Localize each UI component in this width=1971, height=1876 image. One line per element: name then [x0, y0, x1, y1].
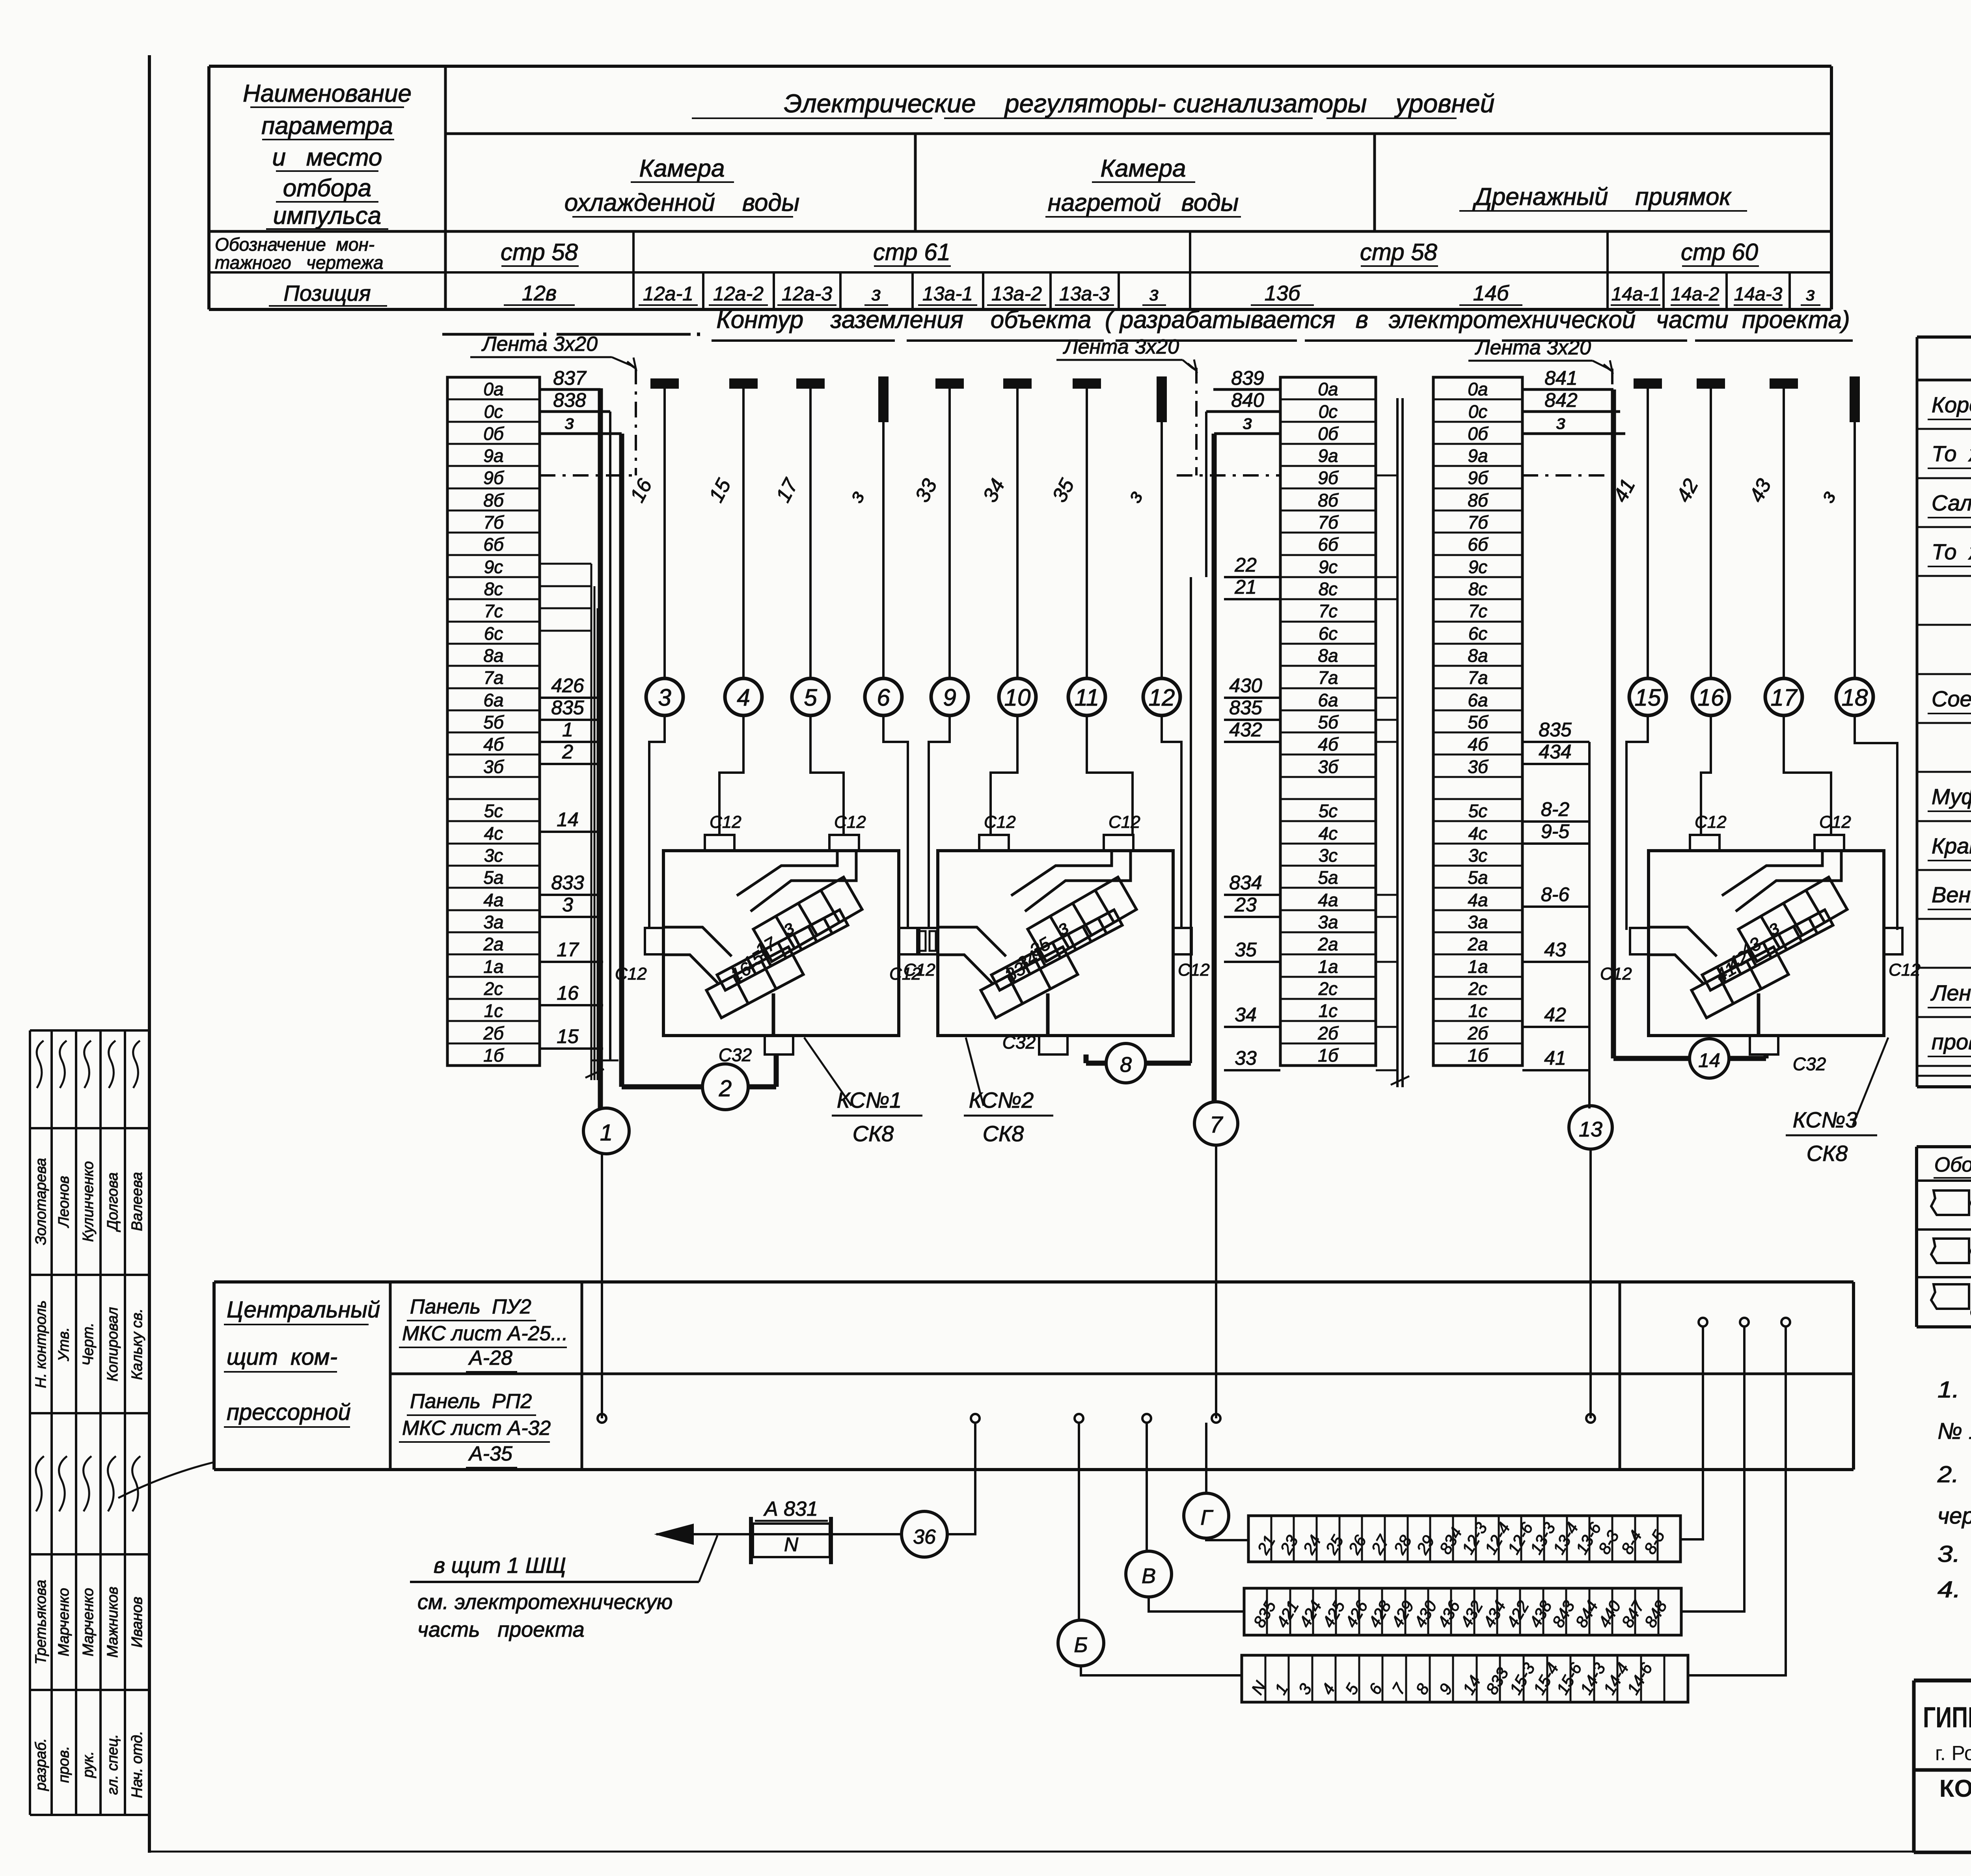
svg-text:стр 58: стр 58: [1360, 239, 1438, 265]
wire run to box stub: [929, 715, 950, 928]
top stub C12 b: [1104, 835, 1133, 851]
svg-text:1: 1: [600, 1120, 613, 1146]
svg-text:3а: 3а: [483, 912, 503, 932]
svg-text:4. Схема выполнена на: 4. Схема выполнена на листах А-39, А-40: [1937, 1577, 1971, 1602]
svg-text:7с: 7с: [1468, 601, 1488, 621]
svg-text:С12: С12: [1108, 812, 1140, 832]
svg-text:34: 34: [1235, 1004, 1257, 1026]
svg-text:5с: 5с: [484, 801, 503, 821]
svg-text:8-2: 8-2: [1541, 798, 1569, 820]
svg-text:7б: 7б: [1468, 512, 1489, 533]
svg-text:1б: 1б: [483, 1045, 505, 1066]
svg-text:12а-2: 12а-2: [713, 283, 764, 305]
impulse line 43 with device pos.17: [1770, 379, 1797, 388]
svg-text:3: 3: [658, 684, 671, 711]
flag symbol 1: [1931, 1190, 1969, 1215]
svg-text:16: 16: [1698, 684, 1724, 711]
svg-text:1. Позиции приборов: 1. Позиции приборов указаны по специфика…: [1937, 1377, 1971, 1403]
junction box KS No.3: [1649, 851, 1884, 1036]
position circle 6: [865, 678, 902, 715]
svg-text:А 831: А 831: [763, 1498, 818, 1520]
pos circle 13: [1569, 1106, 1612, 1149]
connection dots on RP2 row: [598, 1414, 606, 1423]
strip right-end risers to PU2 dots: [1680, 1326, 1703, 1539]
flag symbol 3: [1931, 1284, 1969, 1309]
svg-text:0с: 0с: [484, 401, 503, 422]
wire run to box stub: [1784, 715, 1831, 835]
terminal block mid-left (13b): [1280, 377, 1376, 1066]
svg-text:434: 434: [1539, 741, 1571, 763]
svg-text:9б: 9б: [1468, 468, 1489, 488]
svg-text:6а: 6а: [1318, 690, 1338, 710]
svg-text:4с: 4с: [1468, 823, 1488, 844]
wire run to box stub: [1701, 715, 1711, 835]
svg-text:5а: 5а: [483, 867, 503, 888]
svg-text:Иванов: Иванов: [129, 1597, 145, 1647]
svg-text:пров.: пров.: [56, 1746, 72, 1783]
svg-text:0а: 0а: [1318, 379, 1338, 399]
svg-text:7а: 7а: [1318, 667, 1338, 688]
svg-text:11: 11: [1075, 684, 1099, 711]
svg-text:0а: 0а: [1468, 379, 1488, 399]
svg-text:838: 838: [553, 389, 586, 411]
svg-text:2а: 2а: [1317, 934, 1338, 954]
svg-text:12в: 12в: [522, 281, 557, 305]
svg-text:5б: 5б: [1468, 712, 1489, 732]
svg-text:14а-1: 14а-1: [1611, 284, 1660, 305]
svg-text:7б: 7б: [1318, 512, 1339, 533]
svg-text:импульса: импульса: [273, 202, 381, 229]
terminal strip G: [1248, 1516, 1680, 1562]
svg-text:6а: 6а: [1468, 690, 1488, 710]
svg-text:0а: 0а: [483, 379, 503, 399]
svg-text:в щит 1 ШЩ: в щит 1 ШЩ: [434, 1553, 566, 1578]
svg-text:8с: 8с: [1319, 579, 1338, 599]
mid-right block wire labels: [1522, 388, 1613, 391]
svg-text:12а-1: 12а-1: [643, 283, 693, 305]
svg-text:з: з: [564, 411, 574, 433]
mid-left block wire labels: [1213, 388, 1280, 391]
specification table: [1917, 335, 1971, 339]
svg-text:22: 22: [1234, 554, 1257, 576]
svg-text:КС№3: КС№3: [1793, 1107, 1858, 1132]
svg-text:35: 35: [1235, 939, 1257, 961]
junction box KS No.2: [938, 851, 1173, 1036]
svg-text:4б: 4б: [483, 734, 505, 754]
svg-text:параметра: параметра: [261, 112, 393, 140]
svg-text:прессорной: прессорной: [227, 1399, 351, 1425]
wire run to box stub: [649, 715, 665, 928]
svg-text:7с: 7с: [1319, 601, 1338, 621]
svg-text:2б: 2б: [483, 1023, 505, 1043]
svg-text:1а: 1а: [483, 956, 503, 977]
svg-text:1с: 1с: [1319, 1000, 1338, 1021]
svg-text:7а: 7а: [483, 667, 503, 688]
svg-text:430: 430: [1229, 674, 1262, 697]
svg-text:Б: Б: [1074, 1633, 1088, 1657]
svg-text:Мажников: Мажников: [104, 1587, 121, 1658]
handwriting underlines top table: [250, 106, 404, 108]
svg-text:4с: 4с: [484, 823, 503, 844]
svg-text:9: 9: [943, 684, 956, 711]
svg-text:9а: 9а: [483, 445, 503, 466]
svg-text:839: 839: [1231, 367, 1264, 389]
wire 838: [609, 412, 611, 1060]
position circle 18: [1836, 678, 1873, 715]
svg-text:4: 4: [737, 684, 750, 711]
svg-text:3б: 3б: [1468, 756, 1489, 777]
svg-text:13а-2: 13а-2: [991, 283, 1042, 305]
svg-text:841: 841: [1544, 367, 1577, 389]
impulse line 15 with device pos.4: [730, 379, 757, 388]
flag symbol 2: [1931, 1239, 1969, 1263]
svg-text:Копировал: Копировал: [104, 1307, 121, 1382]
svg-text:14: 14: [1698, 1049, 1720, 1071]
junction box KS No.1: [663, 851, 899, 1036]
svg-text:12: 12: [1149, 684, 1175, 711]
svg-text:12а-3: 12а-3: [782, 283, 832, 305]
svg-text:6: 6: [877, 684, 890, 711]
svg-text:МКС лист А-25...: МКС лист А-25...: [402, 1322, 568, 1345]
svg-text:3с: 3с: [1468, 845, 1488, 866]
title block: [1914, 1679, 1971, 1682]
svg-text:3а: 3а: [1468, 912, 1488, 932]
position circle 4: [725, 678, 762, 715]
right stub C12: [899, 928, 917, 954]
svg-text:17: 17: [557, 939, 579, 961]
svg-text:18: 18: [1842, 684, 1868, 711]
svg-text:з: з: [1243, 411, 1252, 433]
svg-text:см. электротехническую: см. электротехническую: [417, 1590, 673, 1614]
terminal strip V: [1244, 1588, 1681, 1635]
svg-text:№ 1 Кип: № 1 Кип: [1937, 1418, 1971, 1444]
wire run to box stub: [1162, 715, 1181, 928]
svg-text:Марченко: Марченко: [80, 1588, 97, 1656]
svg-text:13б: 13б: [1265, 281, 1301, 305]
svg-text:стр 60: стр 60: [1681, 239, 1758, 265]
pos circle 36 and cable A831 to shield 1SchSch: [902, 1511, 947, 1557]
svg-text:4а: 4а: [1468, 890, 1488, 910]
svg-text:Валеева: Валеева: [129, 1172, 145, 1231]
svg-text:5а: 5а: [1318, 867, 1338, 888]
svg-text:С32: С32: [1002, 1032, 1036, 1053]
svg-text:охлажденной воды: охлажденной воды: [564, 189, 799, 216]
letter circle B: [1058, 1620, 1104, 1666]
svg-text:Кран контрольный: Кран контрольный: [1932, 833, 1971, 858]
svg-text:13а-1: 13а-1: [922, 283, 973, 305]
svg-text:9б: 9б: [1318, 468, 1339, 488]
svg-text:432: 432: [1229, 719, 1262, 741]
svg-text:13а-3: 13а-3: [1059, 283, 1110, 305]
svg-text:з: з: [1806, 284, 1815, 305]
svg-text:7а: 7а: [1468, 667, 1488, 688]
svg-text:2с: 2с: [1318, 978, 1338, 999]
svg-text:Центральный: Центральный: [227, 1297, 380, 1323]
svg-text:1а: 1а: [1468, 956, 1488, 977]
position circle 16: [1692, 678, 1729, 715]
svg-text:2. Соединительные коро: 2. Соединительные коробки типа СК устано…: [1937, 1462, 1971, 1487]
terminal block left (12v): [447, 377, 540, 1066]
bundle verticals right of left block: [591, 564, 592, 1080]
pos circle 8 on thick ground link: [1146, 1061, 1191, 1066]
svg-text:6а: 6а: [483, 690, 503, 710]
wire 41 down to pos.13: [1588, 742, 1591, 1108]
svg-text:С12: С12: [889, 964, 921, 984]
left block wire labels and stub lines: [540, 388, 600, 391]
svg-text:С12: С12: [1819, 812, 1851, 832]
svg-text:5с: 5с: [1468, 801, 1488, 821]
svg-text:834: 834: [1229, 872, 1262, 894]
bundle verticals between mid blocks: [1396, 398, 1399, 1087]
left stub C12: [645, 928, 663, 954]
svg-text:з: з: [1556, 411, 1565, 433]
svg-text:0б: 0б: [1468, 423, 1489, 444]
svg-text:6с: 6с: [1468, 623, 1488, 644]
ground wire z mid (thick) down to pos.7: [1212, 434, 1217, 1103]
svg-text:Лента 3х20: Лента 3х20: [1063, 335, 1179, 358]
terminal block mid-right (14b): [1433, 377, 1522, 1066]
svg-text:Позиция: Позиция: [283, 281, 371, 306]
svg-text:рук.: рук.: [80, 1751, 97, 1778]
svg-text:426: 426: [551, 674, 584, 697]
svg-text:Обозначение мон-: Обозначение мон-: [215, 234, 374, 255]
svg-text:Третьякова: Третьякова: [33, 1580, 49, 1665]
svg-text:8а: 8а: [483, 645, 503, 666]
right stub C12: [1884, 928, 1902, 954]
connection dots on PU2 row: [1699, 1318, 1707, 1326]
top stub C12 a: [979, 835, 1009, 851]
letter circle V: [1126, 1551, 1172, 1597]
svg-text:43: 43: [1544, 939, 1566, 961]
svg-text:41: 41: [1544, 1047, 1566, 1069]
svg-text:Коробка соединительная: Коробка соединительная: [1932, 392, 1971, 417]
svg-text:С12: С12: [710, 812, 741, 832]
svg-text:14а-2: 14а-2: [1671, 284, 1720, 305]
svg-text:Марченко: Марченко: [56, 1588, 72, 1656]
svg-text:Г: Г: [1200, 1506, 1213, 1529]
svg-text:16: 16: [557, 982, 579, 1004]
wire run to box stub: [1626, 715, 1648, 930]
svg-text:14: 14: [557, 809, 579, 831]
svg-text:9а: 9а: [1468, 445, 1488, 466]
svg-text:8а: 8а: [1468, 645, 1488, 666]
svg-text:Леонов: Леонов: [56, 1176, 72, 1228]
svg-text:Муфта: Муфта: [1932, 784, 1971, 809]
position circle 3: [646, 678, 683, 715]
svg-text:2а: 2а: [1467, 934, 1488, 954]
position circle 10: [999, 678, 1036, 715]
svg-text:Черт.: Черт.: [80, 1323, 97, 1366]
top stub C12 a: [705, 835, 734, 851]
svg-text:Вентиль запорный: Вентиль запорный: [1932, 882, 1971, 907]
svg-text:гл. спец.: гл. спец.: [104, 1734, 121, 1795]
svg-text:2с: 2с: [1468, 978, 1488, 999]
internal angled terminal assembly: [1722, 851, 1822, 896]
position circle 15: [1629, 678, 1666, 715]
svg-text:6б: 6б: [1318, 534, 1339, 555]
svg-text:щит ком-: щит ком-: [227, 1344, 337, 1370]
right stub C12: [1173, 928, 1192, 954]
svg-text:Дренажный приямок: Дренажный приямок: [1472, 183, 1732, 211]
svg-text:21: 21: [1234, 576, 1257, 598]
svg-text:проводник: проводник: [1932, 1029, 1971, 1054]
wire run to box stub: [810, 715, 844, 835]
svg-text:з: з: [871, 283, 881, 305]
svg-text:14а-3: 14а-3: [1734, 284, 1783, 305]
handwriting underlines panel box: [224, 1324, 369, 1325]
svg-text:СК8: СК8: [853, 1121, 894, 1146]
svg-text:Кальку св.: Кальку св.: [129, 1308, 145, 1380]
pos circle 7: [1194, 1102, 1238, 1145]
svg-text:стр 61: стр 61: [873, 239, 950, 265]
svg-text:Панель ПУ2: Панель ПУ2: [410, 1295, 531, 1318]
dash-dot tie mid group: [1195, 368, 1198, 475]
position circle 5: [792, 678, 829, 715]
svg-text:13: 13: [1579, 1118, 1602, 1141]
svg-text:0б: 0б: [1318, 423, 1339, 444]
left stub C12: [919, 928, 938, 954]
svg-text:часть проекта: часть проекта: [417, 1618, 585, 1641]
svg-text:2: 2: [562, 741, 573, 763]
svg-text:2б: 2б: [1467, 1023, 1489, 1043]
impulse line 34 with device pos.10: [1004, 379, 1031, 388]
svg-text:г. Ростов-на-Дону 1976 г: г. Ростов-на-Дону 1976 г: [1935, 1742, 1971, 1765]
svg-text:833: 833: [551, 872, 584, 894]
svg-text:8-6: 8-6: [1541, 883, 1569, 905]
svg-text:В: В: [1142, 1564, 1156, 1588]
impulse line 42 with device pos.16: [1697, 379, 1724, 388]
bottom stub C32: [1750, 1036, 1778, 1054]
svg-text:3б: 3б: [1318, 756, 1339, 777]
legend table (oboznachenie): [1917, 1145, 1971, 1148]
sheet frame bottom border: [149, 1851, 1971, 1853]
svg-text:Электрические регуляторы- с: Электрические регуляторы- сигнализаторы …: [784, 89, 1495, 118]
svg-text:2а: 2а: [483, 934, 503, 954]
svg-text:6с: 6с: [1319, 623, 1338, 644]
svg-text:835: 835: [1229, 697, 1262, 719]
svg-text:7: 7: [1210, 1112, 1224, 1138]
svg-text:9а: 9а: [1318, 445, 1338, 466]
svg-text:842: 842: [1544, 389, 1578, 411]
svg-text:Лента 3х20: Лента 3х20: [481, 333, 598, 356]
dash-dot ground tie left group: [540, 474, 636, 477]
svg-text:8б: 8б: [1318, 490, 1339, 510]
svg-text:8а: 8а: [1318, 645, 1338, 666]
top stub C12 b: [829, 835, 859, 851]
svg-text:8с: 8с: [484, 579, 503, 599]
svg-text:С12: С12: [984, 812, 1016, 832]
svg-text:Соединитель: Соединитель: [1932, 686, 1971, 711]
svg-text:6б: 6б: [1468, 534, 1489, 555]
svg-text:1с: 1с: [484, 1000, 503, 1021]
terminal strip B: [1242, 1655, 1688, 1702]
svg-text:42: 42: [1544, 1004, 1566, 1026]
svg-text:С32: С32: [719, 1045, 752, 1065]
svg-text:и место: и место: [272, 144, 382, 171]
svg-text:Лента 3х20: Лента 3х20: [1475, 336, 1591, 359]
left stub C12: [1630, 928, 1649, 954]
svg-text:Долгова: Долгова: [104, 1172, 121, 1232]
svg-text:14б: 14б: [1473, 281, 1509, 305]
svg-text:5а: 5а: [1468, 867, 1488, 888]
impulse line з with device pos.18: [1850, 377, 1859, 421]
svg-text:8б: 8б: [1468, 490, 1489, 510]
svg-text:7с: 7с: [484, 601, 503, 621]
ground loop (kontur zazemleniya) dash-dot line and caption: [442, 333, 534, 336]
left margin stamp (rotated): [29, 1030, 31, 1815]
svg-text:разраб.: разраб.: [33, 1738, 49, 1791]
impulse line 41 with device pos.15: [1634, 379, 1661, 388]
svg-text:отбора: отбора: [283, 175, 371, 202]
svg-text:6б: 6б: [483, 534, 505, 555]
svg-text:з: з: [1149, 283, 1159, 305]
svg-text:8: 8: [1120, 1053, 1132, 1077]
svg-text:8с: 8с: [1468, 579, 1488, 599]
svg-text:Лента стальная: Лента стальная: [1930, 980, 1971, 1005]
position circle 17: [1765, 678, 1802, 715]
wire run to box stub: [1855, 715, 1897, 930]
svg-text:Кулинченко: Кулинченко: [80, 1161, 97, 1242]
position circle 12: [1143, 678, 1180, 715]
svg-text:Сальник: Сальник: [1932, 490, 1971, 515]
svg-text:тажного чертежа: тажного чертежа: [215, 252, 384, 273]
wire 841 (thick) to pos.14: [1611, 389, 1616, 1058]
impulse line 33 with device pos.9: [936, 379, 963, 388]
wire run to box stub: [719, 715, 743, 835]
ground wire z (thick) down to pos.2: [619, 434, 624, 1087]
pos circle 2 on thick ground link: [622, 1084, 701, 1090]
central compressor panel box and bus: [214, 1280, 1854, 1284]
svg-text:4с: 4с: [1319, 823, 1338, 844]
position circle 9: [931, 678, 968, 715]
svg-text:МКС лист А-32: МКС лист А-32: [402, 1417, 551, 1440]
svg-text:5б: 5б: [483, 712, 505, 732]
svg-text:17: 17: [1771, 684, 1798, 711]
svg-text:1а: 1а: [1318, 956, 1338, 977]
svg-text:Нач. отд.: Нач. отд.: [129, 1731, 145, 1798]
wire run to box stub: [991, 715, 1017, 835]
impulse line 17 with device pos.5: [797, 379, 824, 388]
svg-text:33: 33: [1235, 1047, 1257, 1069]
svg-text:3: 3: [562, 894, 573, 916]
svg-text:5: 5: [804, 684, 817, 711]
svg-text:23: 23: [1234, 894, 1257, 916]
top stub C12 b: [1815, 835, 1844, 851]
svg-text:1: 1: [562, 719, 573, 741]
svg-text:А-28: А-28: [468, 1347, 512, 1369]
svg-text:837: 837: [553, 367, 587, 389]
svg-text:9-5: 9-5: [1541, 820, 1569, 842]
svg-text:То же: То же: [1932, 539, 1971, 564]
stamp signatures squiggles: [36, 1456, 44, 1511]
impulse line 16 with device pos.3: [651, 379, 678, 388]
svg-text:Обозначение: Обозначение: [1934, 1153, 1971, 1176]
svg-text:А-35: А-35: [468, 1442, 513, 1465]
svg-text:9с: 9с: [1319, 557, 1338, 577]
svg-text:ГИПРОСТРОЙДОРМАШ: ГИПРОСТРОЙДОРМАШ: [1923, 1701, 1971, 1734]
svg-text:5б: 5б: [1318, 712, 1339, 732]
svg-text:Утв.: Утв.: [56, 1327, 72, 1362]
svg-text:3с: 3с: [484, 845, 503, 866]
svg-text:3. Журнал кабельных: 3. Журнал кабельных проводок см. лист А-…: [1937, 1541, 1971, 1567]
svg-text:Золотарева: Золотарева: [33, 1158, 49, 1245]
svg-text:0б: 0б: [483, 423, 505, 444]
bottom stub C32: [765, 1036, 793, 1054]
svg-text:1б: 1б: [1468, 1045, 1489, 1066]
position circle 11: [1068, 678, 1105, 715]
wire run to box stub: [1087, 715, 1133, 835]
svg-text:4а: 4а: [1318, 890, 1338, 910]
